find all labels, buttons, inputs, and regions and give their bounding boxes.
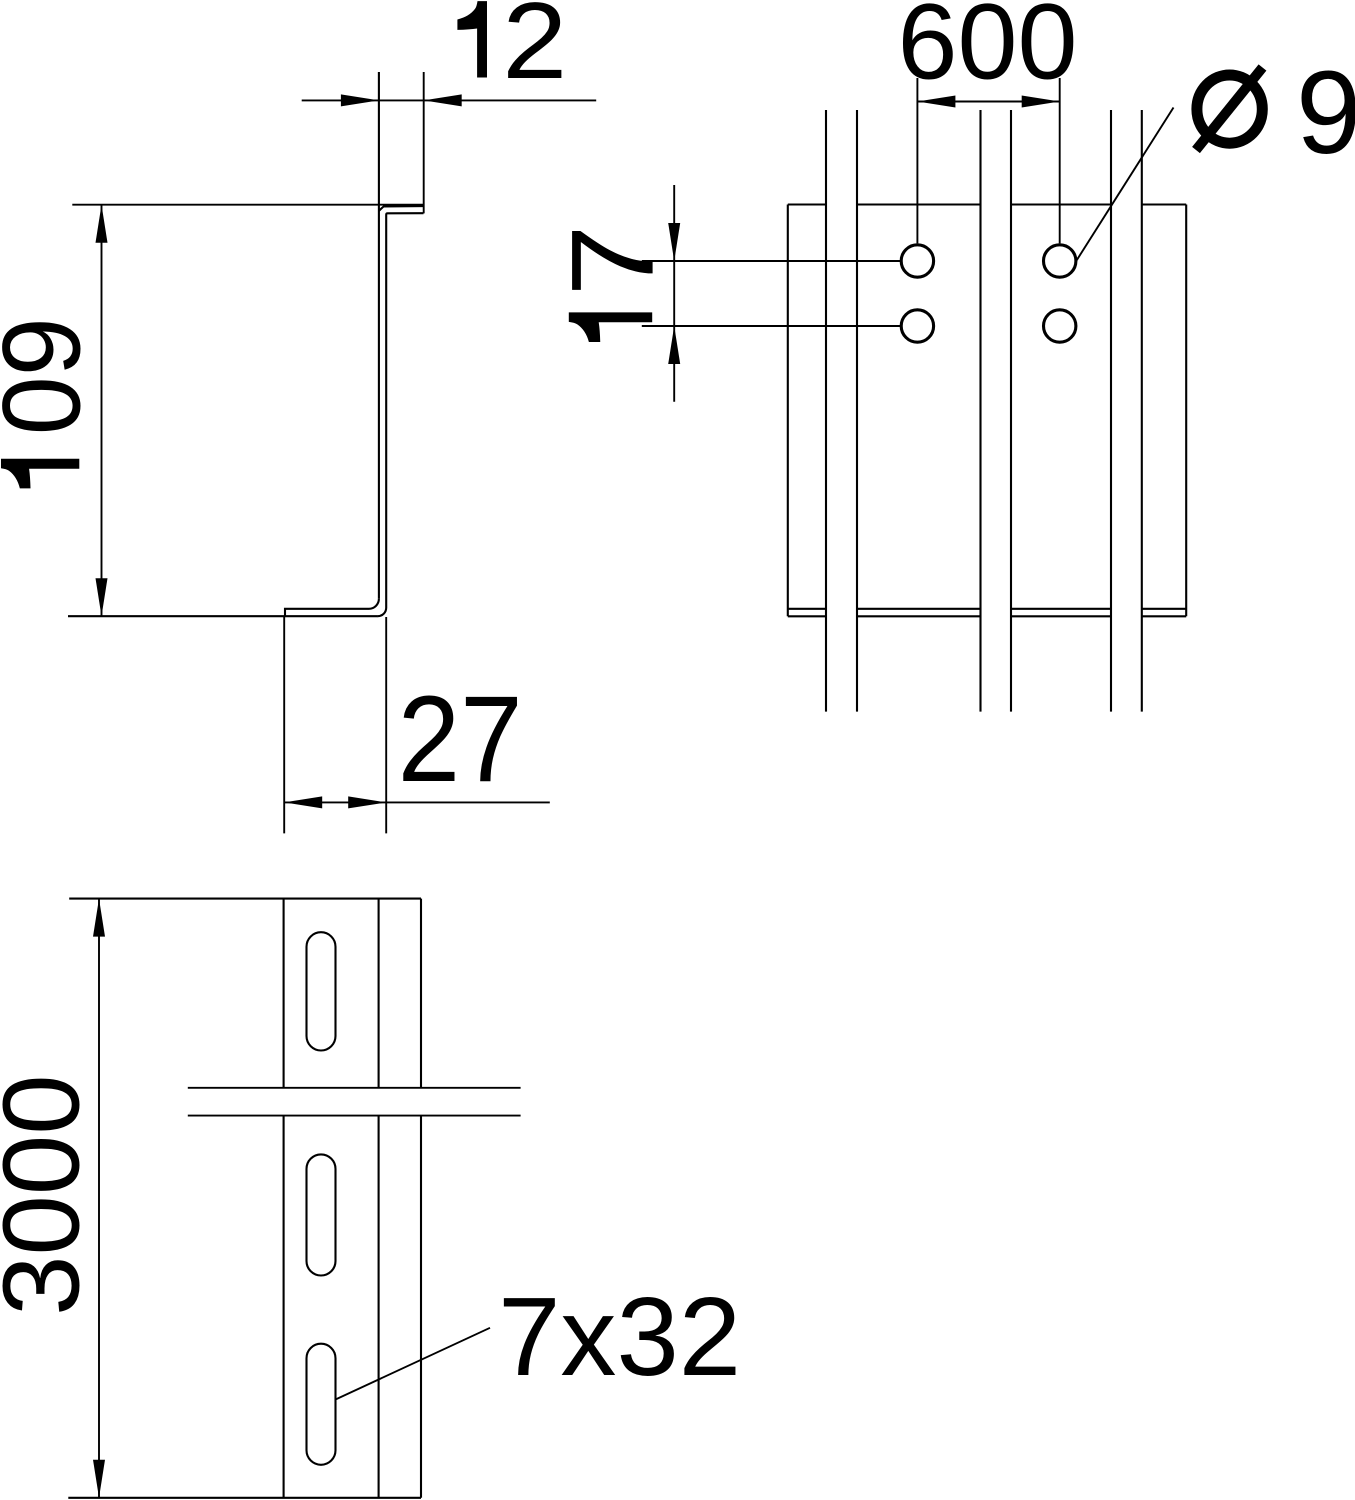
- svg-text:9: 9: [1296, 47, 1355, 178]
- view 2: rail 1 left line: [825, 110, 827, 712]
- dimension 17: extension line top: [642, 260, 901, 262]
- svg-text:7: 7: [547, 225, 678, 297]
- dimension 109: arrow top: [96, 205, 108, 243]
- view 2: plate bottom edge segments: [788, 615, 1186, 617]
- view 2: rail 2 right line: [1010, 110, 1012, 712]
- view 3: rail left edge: [283, 899, 285, 1498]
- dimension 27: dimension line: [284, 801, 550, 803]
- dimension 12: dimension line: [302, 99, 597, 101]
- dimension 109: text (rotated): [0, 317, 103, 488]
- dimension 600: arrow right: [1022, 96, 1060, 108]
- dimension 17: arrow top: [668, 223, 680, 261]
- view 2: plate top edge segments: [788, 203, 1186, 205]
- dimension 27: extension line right: [385, 617, 387, 833]
- view 2: hole bottom-left: [901, 310, 933, 342]
- view 2: mounting plate left edge: [787, 205, 789, 617]
- dimension 12: arrow right: [424, 94, 462, 106]
- dimension 12: arrow left: [341, 94, 379, 106]
- view 1: profile top flange bottom surface and web inner face: [378, 213, 424, 616]
- view 3: slot 3: [307, 1344, 336, 1465]
- view 2: rail 2 left line: [979, 110, 981, 712]
- dimension 109: arrow bottom: [96, 578, 108, 616]
- dimension diameter 9: text: [1196, 47, 1355, 178]
- dimension 12: extension line right / flange right edge: [423, 72, 425, 213]
- dimension 27: extension line left: [283, 616, 285, 833]
- dimension 17: extension line bottom: [642, 325, 901, 327]
- view 2: rail 3 left line: [1110, 110, 1112, 712]
- view 2: hole top-right: [1044, 245, 1076, 277]
- dimension 600: arrow left: [917, 96, 955, 108]
- dimension 12: text: [457, 0, 567, 102]
- view 3: slot 1: [307, 932, 336, 1050]
- view 3: rail fold line: [378, 899, 380, 1498]
- view 1: profile web outer face + 12 extension left: [378, 72, 380, 599]
- dimension 17: text (rotated): [547, 225, 678, 343]
- view 2: plate fold line segments: [788, 608, 1186, 610]
- dimension 27: arrow left: [284, 796, 322, 808]
- dimension 109: extension line top: [72, 204, 423, 206]
- view 3: break line lower: [188, 1115, 521, 1117]
- label 7x32: leader line: [336, 1328, 491, 1400]
- svg-text:600: 600: [898, 0, 1078, 101]
- view 3: slot 2: [307, 1154, 336, 1275]
- view 2: rail 1 right line: [856, 110, 858, 712]
- dimension 109: dimension line: [101, 205, 103, 617]
- dimension diameter 9: leader line: [1076, 108, 1173, 262]
- dimension 600: extension line left: [916, 78, 918, 243]
- svg-text:7x32: 7x32: [498, 1275, 741, 1399]
- dimension 3000: arrow top: [93, 899, 105, 937]
- view 3: rail bottom edge: [68, 1497, 421, 1499]
- dimension 600: dimension line: [917, 101, 1059, 103]
- view 3: break line upper: [188, 1087, 521, 1089]
- dimension 27: arrow right: [348, 796, 386, 808]
- view 1: profile bottom flange top surface with inner bend: [285, 599, 379, 616]
- view 2: hole top-left: [901, 245, 933, 277]
- dimension 17: arrow bottom: [668, 326, 680, 364]
- view 2: rail 3 right line: [1141, 110, 1143, 712]
- dimension 3000: arrow bottom: [93, 1460, 105, 1498]
- dimension 109: extension line bottom: [68, 615, 378, 617]
- view 3: rail right edge: [420, 899, 422, 1498]
- svg-text:3000: 3000: [0, 1074, 102, 1316]
- dimension 3000: dimension line: [98, 899, 100, 1498]
- dimension 600: extension line right: [1059, 78, 1061, 243]
- view 3: rail top edge: [69, 898, 421, 900]
- dimension 17: dimension line: [673, 185, 675, 402]
- svg-text:2: 2: [502, 0, 567, 102]
- view 1: profile top flange top surface with bend chamfer: [379, 206, 423, 211]
- svg-text:27: 27: [398, 670, 523, 807]
- view 2: mounting plate right edge: [1185, 205, 1187, 617]
- view 2: hole bottom-right: [1044, 310, 1076, 342]
- svg-text:09: 09: [0, 317, 103, 435]
